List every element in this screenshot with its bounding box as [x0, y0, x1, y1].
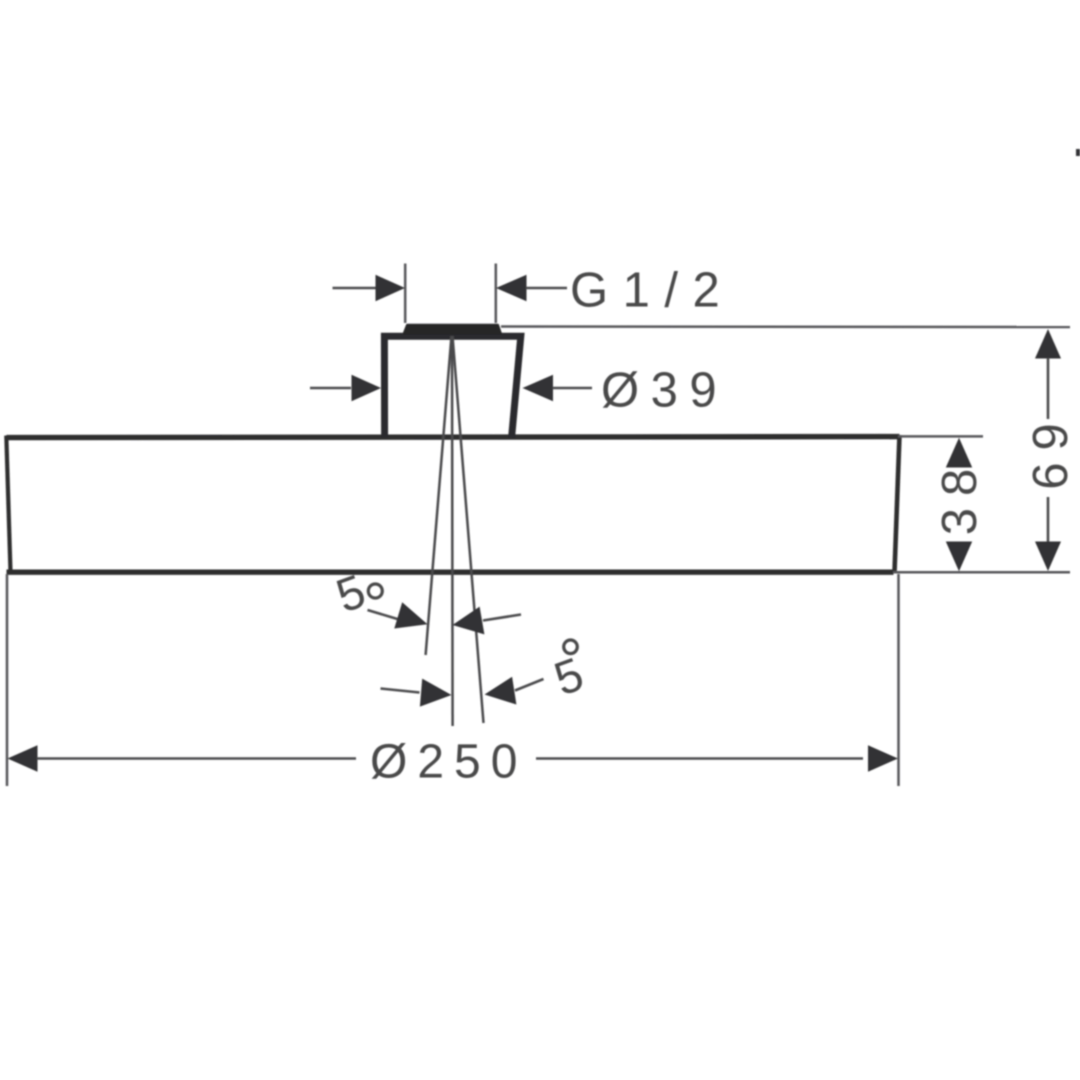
- 38 dimension arrows: [946, 438, 972, 572]
- svg-text:Ø39: Ø39: [601, 364, 728, 418]
- angle label 5 deg lower-right: [547, 640, 590, 705]
- svg-text:5: 5: [547, 647, 590, 706]
- diameter 250 extension line left: [6, 574, 9, 786]
- svg-text:Ø250: Ø250: [370, 736, 527, 789]
- top extension line to 69 dimension: [501, 325, 1070, 328]
- G1/2 extension line right: [495, 264, 498, 324]
- G1/2 label: [570, 264, 734, 318]
- svg-text:38: 38: [933, 457, 987, 536]
- angle arrow lower-right + leader: [485, 677, 544, 705]
- thread cap (G1/2): [404, 325, 501, 334]
- diameter 250 label: [370, 736, 527, 789]
- Ø39 dimension arrows: [310, 375, 592, 401]
- angle arrow lower-left (to center line): [381, 679, 452, 707]
- spray angle line left: [426, 336, 452, 655]
- stray mark at right edge: [1076, 149, 1080, 156]
- 38 label (rotated): [933, 457, 987, 536]
- angle arrow upper-right (to center line): [453, 607, 522, 635]
- G1/2 dimension arrows: [333, 275, 568, 301]
- Ø39 label: [601, 364, 728, 418]
- G1/2 extension line left: [404, 264, 407, 324]
- svg-text:G1/2: G1/2: [570, 264, 734, 318]
- spray angle line center: [451, 336, 454, 726]
- angle leader + arrow upper-left: [368, 602, 428, 628]
- shower plate body outline: [6, 435, 899, 572]
- 69 dimension line and arrows: [1035, 329, 1061, 571]
- 38 top extension line: [898, 435, 983, 438]
- diameter 250 dimension line and arrows: [8, 745, 899, 771]
- svg-text:69: 69: [1024, 411, 1078, 490]
- angle label 5 deg upper-left: [329, 564, 382, 623]
- connector box (Ø39 stem): [384, 336, 520, 437]
- diameter 250 extension line right: [897, 574, 900, 786]
- 69 label (rotated): [1024, 411, 1078, 490]
- bottom extension line (disc bottom, shared by 38 and 69): [893, 571, 1070, 574]
- spray angle line right: [453, 336, 484, 723]
